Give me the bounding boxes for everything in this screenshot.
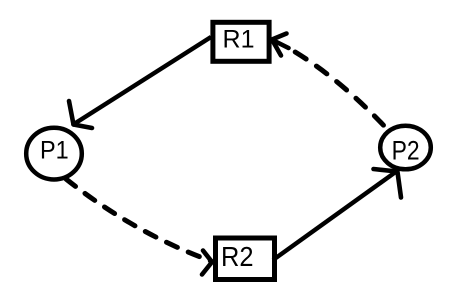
assignment edge wire R2 to P2 (solid) [273,171,397,260]
resource box R1 [213,22,269,61]
svg-text:P2: P2 [392,136,420,166]
arrowhead at R2 [202,251,212,275]
arrowhead at P2 [374,169,402,198]
svg-text:R2: R2 [221,241,254,272]
request edge wire P2 to R1 (dashed) [295,52,388,130]
process circle P2 [380,126,431,170]
resource box R2 [216,238,275,280]
arrowhead at R1 [272,34,289,56]
svg-text:P1: P1 [40,136,69,164]
process circle P1 [26,128,82,180]
svg-text:R1: R1 [223,26,255,54]
assignment edge wire R1 to P1 (solid) [74,37,211,124]
request edge wire P1 to R2 (dashed) [66,179,211,261]
arrowhead at P1 [69,101,92,128]
